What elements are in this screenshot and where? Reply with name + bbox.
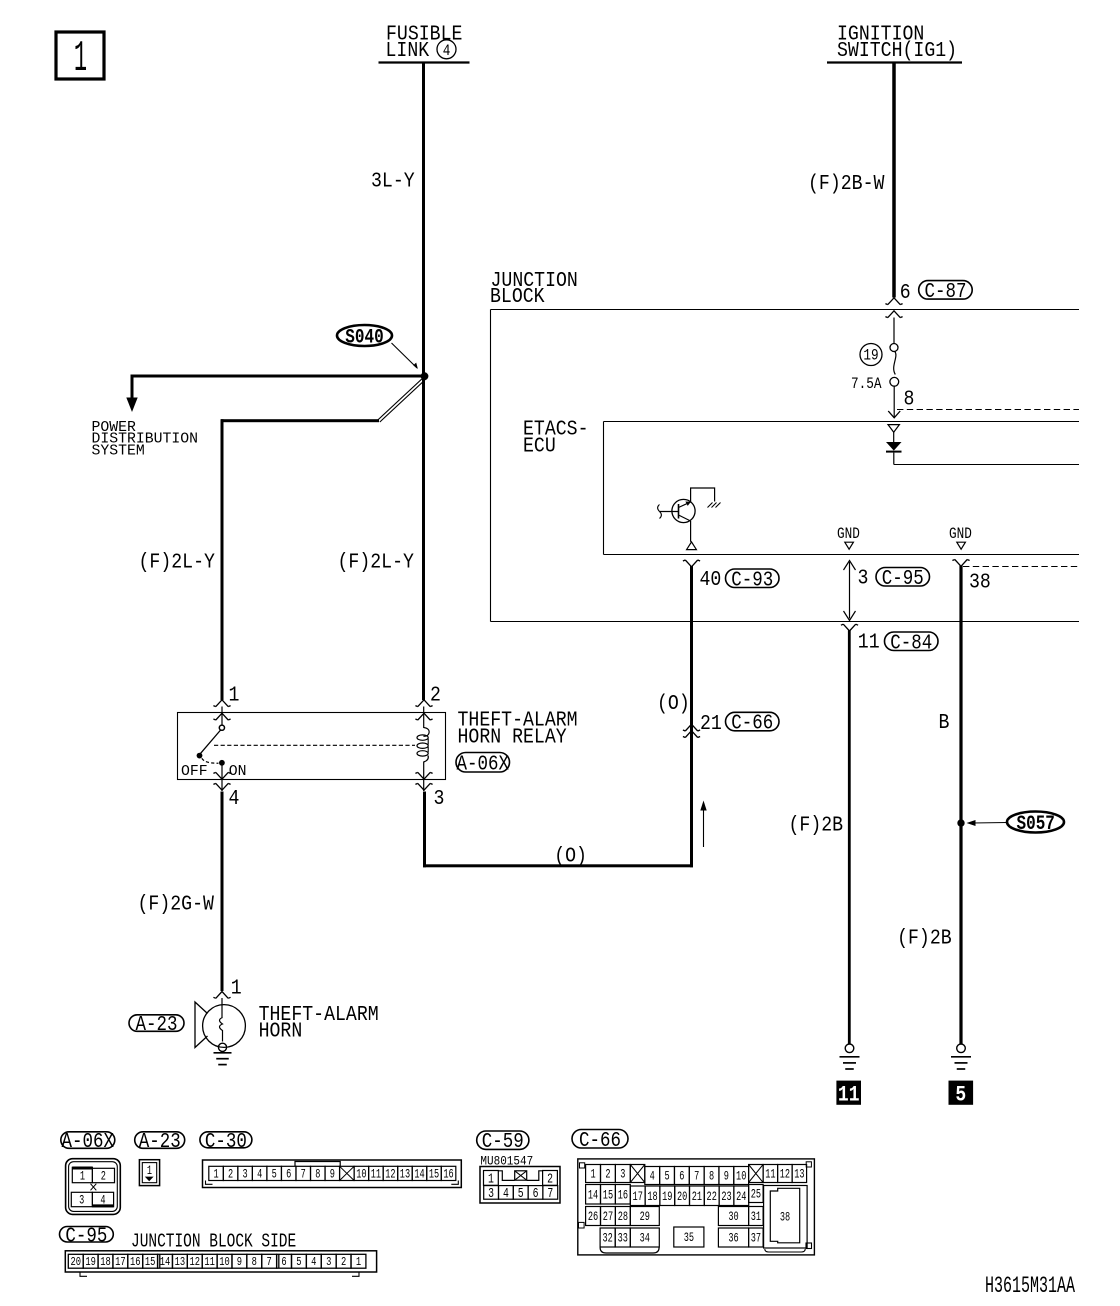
- connector label C-93: [726, 569, 780, 588]
- relay switch OFF position dot: [197, 753, 203, 759]
- svg-text:3: 3: [243, 1168, 248, 1182]
- connector C-66 pinout drawing: [578, 1159, 815, 1255]
- svg-text:40: 40: [700, 568, 722, 592]
- svg-text:A-23: A-23: [136, 1012, 178, 1036]
- svg-text:17: 17: [115, 1256, 126, 1270]
- transistor emitter to ECU pin 40: [679, 515, 691, 521]
- svg-text:(O): (O): [657, 692, 690, 716]
- svg-text:ON: ON: [229, 764, 247, 780]
- svg-text:(F)2L-Y: (F)2L-Y: [338, 550, 415, 574]
- wire inside junction block to fuse 19: [893, 318, 895, 344]
- svg-text:14: 14: [588, 1189, 599, 1203]
- svg-text:C-87: C-87: [924, 279, 966, 303]
- connector chevron at ECU pin 40: [683, 560, 700, 567]
- svg-text:7: 7: [547, 1185, 553, 1201]
- svg-text:A-06X: A-06X: [457, 752, 510, 776]
- theft-alarm horn A-23: [221, 998, 223, 1018]
- svg-text:4: 4: [503, 1185, 509, 1201]
- connector label C-59 bottom: [477, 1131, 529, 1149]
- svg-text:9: 9: [237, 1256, 242, 1270]
- svg-text:B: B: [939, 711, 950, 735]
- dashed bus line top: [897, 409, 1079, 411]
- wire-break squiggle on transistor base lead: [658, 505, 662, 519]
- svg-text:2: 2: [228, 1168, 233, 1182]
- svg-text:12: 12: [780, 1168, 790, 1182]
- ground symbol left (C-84 wire): [845, 1044, 854, 1053]
- svg-text:34: 34: [640, 1232, 651, 1246]
- svg-text:5: 5: [664, 1170, 669, 1184]
- connector A-23 pinout drawing: [139, 1160, 159, 1186]
- svg-text:24: 24: [736, 1191, 747, 1205]
- relay pin 2 chevrons: [415, 700, 432, 707]
- page number box 1: [56, 32, 104, 79]
- wire from S040 junction left toward power distribution system: [131, 375, 426, 378]
- svg-text:3: 3: [434, 787, 445, 811]
- leader arrow from S040 oval to junction dot: [392, 343, 418, 368]
- fuse number circle 19: [860, 344, 882, 366]
- svg-text:7: 7: [267, 1256, 272, 1270]
- svg-text:4: 4: [229, 787, 240, 811]
- svg-text:35: 35: [684, 1232, 694, 1246]
- svg-text:GND: GND: [949, 526, 972, 543]
- svg-text:38: 38: [780, 1211, 790, 1225]
- svg-text:18: 18: [100, 1256, 111, 1270]
- svg-text:19: 19: [85, 1256, 96, 1270]
- svg-text:1: 1: [229, 683, 240, 707]
- connector label C-95 bottom: [60, 1227, 114, 1243]
- svg-text:7: 7: [694, 1170, 699, 1184]
- svg-text:20: 20: [677, 1191, 687, 1205]
- double chevron C-66 crossing: [683, 724, 700, 731]
- bottom bracket under cell 38 area: [765, 1249, 805, 1252]
- relay switch throw curve to ON: [202, 758, 219, 763]
- relay coil: [423, 707, 425, 729]
- svg-text:(F)2B: (F)2B: [897, 926, 952, 950]
- svg-text:25: 25: [751, 1188, 761, 1202]
- svg-text:3: 3: [488, 1185, 494, 1201]
- svg-text:13: 13: [400, 1168, 410, 1182]
- svg-text:LINK: LINK: [386, 39, 430, 63]
- transistor collector to internal chassis ground: [679, 502, 691, 508]
- ground wire B from pin 38 down: [959, 566, 962, 1045]
- relay connector label A-06X: [456, 753, 510, 773]
- svg-text:(F)2B: (F)2B: [789, 813, 844, 837]
- svg-text:17: 17: [633, 1191, 643, 1205]
- svg-text:(O): (O): [554, 844, 587, 868]
- svg-text:3L-Y: 3L-Y: [371, 169, 415, 193]
- connector C-30 pinout drawing: [203, 1160, 462, 1188]
- ground wire from C-84 pin 11 down: [848, 631, 851, 1045]
- svg-text:11: 11: [838, 1083, 860, 1108]
- wire from fuse to ETACS-ECU pin 8: [893, 386, 895, 417]
- horn ground terminal circle: [218, 1043, 226, 1051]
- svg-text:16: 16: [618, 1189, 628, 1203]
- svg-text:1: 1: [590, 1168, 595, 1182]
- input triangle at ECU pin 8: [888, 425, 899, 433]
- connector A-06X pinout drawing: [66, 1159, 121, 1215]
- svg-text:1: 1: [231, 976, 242, 1000]
- svg-text:33: 33: [618, 1232, 628, 1246]
- connector label A-06X bottom: [61, 1132, 115, 1149]
- ground symbol right (pin 38 wire): [957, 1044, 966, 1053]
- svg-text:2: 2: [341, 1256, 346, 1270]
- svg-text:C-30: C-30: [205, 1129, 247, 1153]
- connector chevron at pin 38: [952, 560, 969, 567]
- svg-text:20: 20: [70, 1256, 81, 1270]
- output triangle at ECU pin 40: [687, 542, 697, 550]
- svg-text:A-23: A-23: [139, 1129, 181, 1153]
- svg-text:C-95: C-95: [65, 1224, 107, 1248]
- svg-text:36: 36: [728, 1232, 738, 1246]
- svg-text:5: 5: [518, 1185, 524, 1201]
- svg-text:9: 9: [724, 1170, 729, 1184]
- svg-text:13: 13: [175, 1256, 186, 1270]
- svg-text:3: 3: [620, 1168, 625, 1182]
- svg-text:4: 4: [650, 1170, 655, 1184]
- relay pin 3 chevrons: [415, 772, 432, 779]
- wire (O) from ECU pin 40 down: [690, 566, 693, 867]
- transistor Q inside ECU: [672, 499, 695, 522]
- svg-text:2: 2: [605, 1168, 610, 1182]
- svg-text:8: 8: [709, 1170, 714, 1184]
- svg-text:JUNCTION BLOCK SIDE: JUNCTION BLOCK SIDE: [131, 1232, 296, 1253]
- junction dot S057: [957, 819, 964, 826]
- svg-text:S057: S057: [1016, 814, 1054, 836]
- junction block outline: [490, 310, 492, 622]
- ground reference box 5: [949, 1081, 973, 1104]
- svg-text:BLOCK: BLOCK: [490, 285, 545, 309]
- svg-text:HORN RELAY: HORN RELAY: [458, 725, 567, 749]
- svg-text:5: 5: [955, 1083, 966, 1108]
- svg-text:A-06X: A-06X: [62, 1129, 115, 1153]
- svg-text:1: 1: [356, 1256, 361, 1270]
- direction arrow beside wire: [703, 808, 705, 847]
- svg-text:4: 4: [443, 43, 451, 60]
- svg-text:15: 15: [145, 1256, 156, 1270]
- connector C-95 pinout drawing: [65, 1251, 376, 1272]
- arrowhead to power distribution system: [126, 398, 137, 413]
- connector chevron at C-84 pin 11: [841, 624, 858, 631]
- svg-text:6: 6: [533, 1185, 539, 1201]
- wire (F)2B-W from ignition switch to junction block pin 6: [892, 64, 896, 298]
- svg-text:SWITCH(IG1): SWITCH(IG1): [837, 39, 957, 63]
- wire from ON contact to relay pin 4: [221, 765, 223, 791]
- svg-text:16: 16: [443, 1168, 453, 1182]
- svg-text:13: 13: [794, 1168, 804, 1182]
- wire horizontal segment to relay pin 1 branch: [221, 419, 379, 422]
- jumper wire pin 3 C-95 inside junction block: [849, 562, 851, 619]
- svg-text:6: 6: [281, 1256, 286, 1270]
- svg-text:SYSTEM: SYSTEM: [92, 444, 145, 460]
- svg-text:18: 18: [647, 1191, 657, 1205]
- svg-text:16: 16: [130, 1256, 141, 1270]
- svg-text:H3615M31AA: H3615M31AA: [985, 1273, 1075, 1299]
- svg-text:26: 26: [588, 1211, 598, 1225]
- relay switch ON position dot: [219, 760, 225, 766]
- double-line splice link from junction down-left: [380, 380, 425, 422]
- connector label C-66: [726, 712, 780, 731]
- svg-text:4: 4: [257, 1168, 262, 1182]
- dashed bus line right: [963, 566, 1079, 568]
- svg-text:22: 22: [707, 1191, 717, 1205]
- svg-text:5: 5: [296, 1256, 301, 1270]
- horn connector label A-23: [129, 1015, 184, 1032]
- svg-text:(F)2G-W: (F)2G-W: [138, 892, 215, 916]
- svg-text:3: 3: [79, 1194, 84, 1208]
- leader arrow from S057 to junction dot: [972, 822, 1008, 825]
- svg-text:S040: S040: [345, 327, 383, 349]
- wire (F)2G-W from relay pin 4 to horn: [221, 792, 224, 992]
- svg-text:HORN: HORN: [259, 1019, 303, 1043]
- svg-text:ECU: ECU: [523, 434, 556, 458]
- ground reference box 11: [837, 1081, 861, 1104]
- theft-alarm horn relay box A-06X: [178, 713, 446, 780]
- svg-text:2: 2: [430, 683, 441, 707]
- svg-text:8: 8: [252, 1256, 257, 1270]
- svg-text:6: 6: [679, 1170, 684, 1184]
- connector C-66 cell 38: [764, 1186, 808, 1249]
- svg-text:29: 29: [640, 1211, 650, 1225]
- svg-text:(F)2L-Y: (F)2L-Y: [139, 550, 216, 574]
- svg-text:19: 19: [662, 1191, 672, 1205]
- svg-text:C-66: C-66: [579, 1128, 621, 1152]
- horn ground symbol: [214, 1052, 232, 1054]
- svg-text:23: 23: [721, 1191, 731, 1205]
- fuse element 7.5A: [890, 344, 898, 352]
- svg-text:30: 30: [728, 1211, 738, 1225]
- svg-text:8: 8: [315, 1168, 320, 1182]
- svg-text:31: 31: [751, 1211, 762, 1225]
- svg-text:3: 3: [326, 1256, 331, 1270]
- svg-text:11: 11: [204, 1256, 215, 1270]
- GND triangle right: [957, 542, 966, 549]
- GND triangle left: [845, 542, 854, 549]
- relay pin 4 chevrons: [213, 772, 230, 779]
- arrowhead into ECU pin 8: [888, 411, 900, 418]
- splice S040 label oval: [337, 325, 392, 346]
- junction dot S040: [421, 372, 429, 380]
- svg-text:C-59: C-59: [482, 1130, 524, 1154]
- connector label A-23 bottom: [135, 1132, 185, 1149]
- bottom bracket under cells 32-34: [600, 1248, 659, 1254]
- svg-text:1: 1: [80, 1170, 85, 1184]
- horn pin 1 chevron: [213, 992, 230, 999]
- svg-text:OFF: OFF: [181, 764, 208, 780]
- wire from relay pin 3 down and right (O): [423, 792, 426, 868]
- svg-text:6: 6: [900, 281, 911, 305]
- connector label C-87: [919, 281, 973, 300]
- svg-text:1: 1: [213, 1168, 218, 1182]
- svg-text:C-66: C-66: [731, 711, 773, 735]
- diode inside ECU: [893, 432, 895, 442]
- svg-text:11: 11: [765, 1168, 776, 1182]
- svg-text:C-95: C-95: [882, 566, 924, 590]
- svg-text:10: 10: [219, 1256, 230, 1270]
- chassis ground hatch: [708, 503, 721, 508]
- connector C-59 pinout drawing: [480, 1167, 560, 1204]
- relay switch contact: [221, 707, 223, 726]
- relay pin 1 chevrons: [213, 700, 230, 707]
- svg-text:6: 6: [286, 1168, 291, 1182]
- svg-text:14: 14: [160, 1256, 171, 1270]
- svg-text:9: 9: [330, 1168, 335, 1182]
- svg-text:12: 12: [385, 1168, 395, 1182]
- svg-text:28: 28: [618, 1211, 628, 1225]
- svg-text:4: 4: [100, 1194, 105, 1208]
- svg-text:2: 2: [101, 1170, 106, 1184]
- svg-text:21: 21: [700, 712, 722, 736]
- svg-text:4: 4: [311, 1256, 316, 1270]
- svg-text:7.5A: 7.5A: [851, 376, 882, 393]
- svg-text:19: 19: [863, 348, 878, 365]
- svg-text:11: 11: [371, 1168, 382, 1182]
- svg-text:10: 10: [736, 1170, 746, 1184]
- ETACS-ECU box outline: [603, 422, 605, 555]
- svg-text:21: 21: [692, 1191, 703, 1205]
- svg-text:C-93: C-93: [731, 568, 773, 592]
- relay internal dashed link: [214, 744, 415, 746]
- svg-text:5: 5: [272, 1168, 277, 1182]
- svg-text:GND: GND: [837, 526, 860, 543]
- svg-text:C-84: C-84: [890, 631, 932, 655]
- svg-text:14: 14: [414, 1168, 425, 1182]
- svg-text:8: 8: [904, 387, 915, 411]
- connector label C-30 bottom: [200, 1132, 252, 1148]
- wire 3L-Y from fusible link down to junction S040: [422, 64, 425, 701]
- svg-text:15: 15: [603, 1189, 613, 1203]
- svg-text:27: 27: [603, 1211, 613, 1225]
- connector label C-84: [885, 632, 939, 651]
- connector label C-95: [876, 568, 930, 587]
- svg-text:(F)2B-W: (F)2B-W: [808, 172, 885, 196]
- connector C-87 pin 6 entry into junction block: [885, 298, 902, 305]
- svg-text:38: 38: [969, 570, 991, 594]
- splice S057 oval label: [1007, 812, 1064, 833]
- double separator lines in C-95 strip: [159, 1254, 161, 1268]
- svg-text:3: 3: [858, 566, 869, 590]
- svg-text:37: 37: [751, 1232, 761, 1246]
- wire from diode to ECU internal bus: [893, 453, 895, 465]
- svg-text:15: 15: [429, 1168, 439, 1182]
- svg-text:10: 10: [356, 1168, 366, 1182]
- svg-text:11: 11: [858, 630, 880, 654]
- svg-text:7: 7: [301, 1168, 306, 1182]
- svg-text:1: 1: [74, 34, 87, 83]
- connector label C-66 bottom: [572, 1130, 628, 1149]
- wire (F)2L-Y left vertical down to relay pin 1: [221, 419, 224, 700]
- svg-text:12: 12: [190, 1256, 201, 1270]
- svg-text:32: 32: [602, 1232, 612, 1246]
